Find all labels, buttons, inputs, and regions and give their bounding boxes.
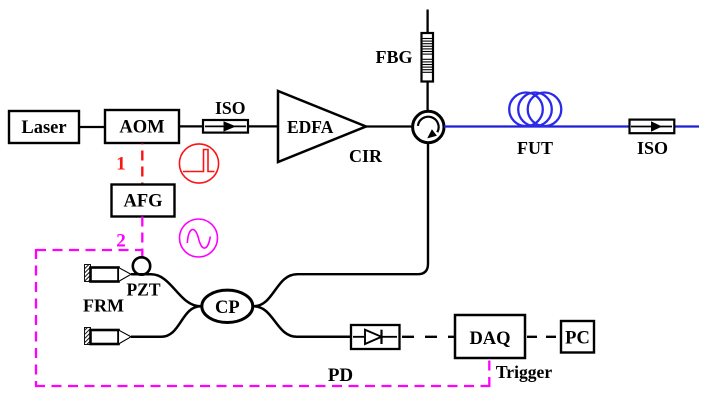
fiber CP to PD	[254, 306, 352, 337]
svg-text:Laser: Laser	[21, 118, 66, 138]
svg-text:PD: PD	[328, 365, 353, 386]
box AOM	[105, 110, 179, 143]
fiber coil FUT	[509, 93, 561, 127]
svg-text:CP: CP	[215, 298, 240, 318]
FBG fiber stub	[426, 10, 428, 112]
svg-text:FRM: FRM	[83, 296, 124, 316]
dashed wire DAQ to PC	[527, 336, 561, 338]
svg-text:FBG: FBG	[375, 47, 412, 67]
svg-text:Trigger: Trigger	[496, 362, 553, 382]
svg-text:2: 2	[116, 231, 126, 252]
svg-text:AFG: AFG	[123, 192, 162, 212]
svg-text:CIR: CIR	[349, 146, 383, 166]
FRM bottom collimator	[85, 328, 132, 345]
isolator ISO2	[630, 120, 675, 158]
svg-text:ISO: ISO	[637, 138, 668, 158]
svg-text:PZT: PZT	[126, 280, 160, 300]
amplifier EDFA	[278, 91, 366, 162]
PZT transducer	[126, 257, 160, 299]
fiber CP to circulator branch	[254, 274, 298, 306]
box PC	[561, 321, 594, 353]
photodiode PD	[351, 325, 400, 349]
svg-text:DAQ: DAQ	[469, 329, 510, 349]
svg-text:PC: PC	[565, 329, 590, 349]
blue fiber CIR to right edge	[444, 125, 699, 127]
fiber CIR down to corner	[297, 144, 428, 275]
isolator ISO1	[203, 98, 248, 133]
box Laser	[9, 111, 79, 143]
dashed wire PD to DAQ	[402, 336, 455, 338]
FBG grating	[422, 33, 434, 82]
sine symbol	[180, 219, 218, 257]
wire branch horizontal	[36, 249, 142, 251]
wire AOM to ISO1	[179, 125, 203, 127]
svg-text:EDFA: EDFA	[287, 117, 334, 137]
box DAQ	[455, 315, 525, 358]
magenta dashed wire AFG to PZT	[141, 217, 143, 258]
wire ISO1 to EDFA	[248, 125, 278, 127]
fiber FRM bottom to CP	[131, 306, 201, 337]
box AFG	[112, 185, 175, 217]
circulator CIR	[413, 111, 444, 142]
wire Laser to AOM	[79, 126, 105, 128]
coupler CP	[202, 290, 253, 322]
wire left vertical	[35, 249, 37, 386]
svg-text:FUT: FUT	[517, 138, 553, 158]
svg-text:ISO: ISO	[215, 98, 245, 118]
magenta dashed trigger loop	[35, 249, 489, 387]
wire bottom horizontal	[35, 385, 489, 387]
red dashed wire AOM to AFG	[141, 144, 143, 185]
svg-text:AOM: AOM	[119, 118, 164, 138]
wire trigger vertical	[488, 359, 490, 388]
wire EDFA to CIR	[366, 125, 412, 127]
pulse symbol	[179, 144, 218, 183]
FRM top collimator	[85, 265, 132, 282]
fiber FRM top to CP	[131, 274, 201, 306]
svg-text:1: 1	[116, 154, 126, 175]
